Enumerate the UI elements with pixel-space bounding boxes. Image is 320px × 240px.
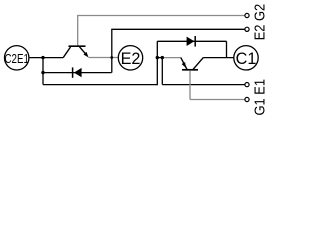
- terminal circle C2E1: [5, 46, 29, 70]
- terminal circle E2: [118, 46, 142, 70]
- diode D2 cathode bar: [72, 67, 74, 77]
- diode D1 triangle (pointing right): [187, 37, 195, 46]
- terminal G2: [245, 13, 249, 17]
- transistor Q2 collector diagonal: [63, 47, 70, 58]
- transistor Q1 emitter arrow: [182, 62, 186, 68]
- terminal G1: [245, 97, 249, 101]
- transistor Q2 base bar: [69, 45, 86, 47]
- svg-text:E2: E2: [121, 50, 141, 68]
- wire E2 auxiliary from diode D2 anode corner up and across to E2 aux terminal: [112, 29, 245, 72]
- junction dot at (111.6,57.5): [110, 56, 113, 59]
- wire Q1 emitter row from vertical x157.4 to Q1: [157, 57, 163, 59]
- junction dot at (157.4,57.6): [156, 56, 159, 59]
- junction dot at (163.7,57.6): [161, 56, 164, 59]
- wire G1 line to terminal (gray): [190, 99, 245, 101]
- wire diode D2 branch y=72.6: [43, 72, 112, 74]
- transistor Q2 emitter diagonal: [80, 47, 88, 56]
- wire Q1 base/gate vertical (gray): [189, 71, 191, 100]
- terminal E2 aux: [245, 27, 249, 31]
- wire C2E1 lead to Q2 collector: [29, 57, 63, 59]
- svg-text:E2 G2: E2 G2: [250, 4, 267, 41]
- terminal circle C1: [234, 46, 258, 70]
- wire C1 lead: [203, 57, 234, 59]
- wire E1 aux line y=84.8 to E1 terminal: [162, 84, 245, 86]
- transistor Q2 emitter arrow: [83, 52, 88, 58]
- wire midpoint bus y=84.8 from x=43 to x=157.4: [43, 41, 157, 84]
- wire D1 cathode drop to C1 row: [226, 41, 228, 57]
- wire Q2 emitter to E2 circle (gray): [89, 57, 119, 59]
- terminal E1: [245, 83, 249, 87]
- svg-text:G1 E1: G1 E1: [250, 79, 267, 116]
- junction dot at (43,57.6): [41, 56, 44, 59]
- transistor Q1 emitter diagonal: [181, 58, 187, 70]
- svg-text:C1: C1: [236, 50, 257, 68]
- wire E1 aux vertical x=163.7: [161, 58, 163, 85]
- svg-text:C2E1: C2E1: [5, 53, 29, 66]
- diode D2 triangle (pointing left): [74, 68, 82, 77]
- wire node C2E1 vertical drop x=43: [42, 58, 44, 85]
- wire diode D1 branch y=41: [157, 40, 226, 42]
- transistor Q1 collector diagonal: [193, 58, 203, 70]
- transistor Q1 base bar: [182, 69, 198, 71]
- junction dot at (43,72.6): [41, 71, 44, 74]
- wire Q1 emitter row gray segment: [164, 57, 181, 59]
- diode D1 cathode bar: [194, 36, 196, 47]
- wire G2 gate rail (gray) from Q2 base up and across to G2 terminal: [78, 16, 245, 46]
